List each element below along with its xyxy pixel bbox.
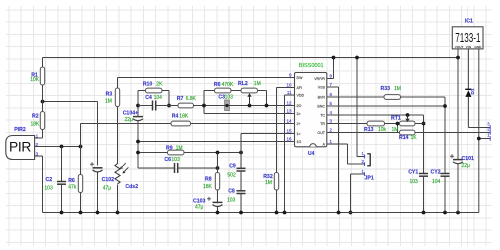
wire pin11 vertical to ground	[285, 95, 295, 213]
svg-text:12: 12	[286, 101, 292, 106]
svg-text:6.8K: 6.8K	[186, 96, 197, 102]
svg-text:JP1: JP1	[365, 176, 374, 182]
svg-text:C101: C101	[462, 156, 475, 162]
svg-text:470K: 470K	[222, 82, 234, 88]
svg-text:2>: 2>	[297, 112, 301, 116]
node R1-R2 junction	[41, 100, 45, 104]
capacitor C6	[164, 157, 180, 173]
svg-text:18K: 18K	[31, 121, 41, 127]
capacitor C4	[145, 95, 162, 111]
node gnd-C2	[60, 211, 64, 215]
resistor R3 1M	[105, 88, 120, 107]
wire pin9 row	[118, 77, 295, 79]
resistor R33 1M	[381, 86, 401, 99]
wire pin14 row	[81, 123, 295, 125]
resistor R32 1M	[263, 173, 278, 191]
svg-text:R7: R7	[177, 96, 184, 102]
svg-text:14: 14	[286, 119, 292, 124]
svg-text:1M: 1M	[105, 99, 112, 105]
resistor R1	[30, 67, 45, 85]
svg-text:7133-1: 7133-1	[455, 31, 480, 45]
svg-text:1K: 1K	[411, 135, 418, 141]
svg-text:2O: 2O	[297, 104, 302, 108]
svg-text:103: 103	[44, 186, 53, 192]
node R13-RT1	[396, 122, 400, 126]
svg-text:11: 11	[287, 90, 292, 95]
potentiometer RL2 1M	[238, 81, 261, 105]
node gnd-R32	[275, 211, 279, 215]
svg-text:RT1: RT1	[391, 115, 401, 121]
svg-text:TC: TC	[320, 114, 325, 118]
svg-text:RL2: RL2	[238, 81, 248, 87]
capacitor C2	[44, 177, 66, 192]
node gnd-R6	[79, 211, 83, 215]
wire pin15 row	[241, 133, 295, 135]
wire C2 vertical	[61, 147, 63, 213]
svg-text:VRF/R: VRF/R	[314, 77, 325, 81]
connector JP1	[361, 169, 373, 182]
node gnd-C102	[96, 211, 100, 215]
capacitor CY2 104	[431, 169, 450, 185]
svg-text:PIR: PIR	[9, 139, 31, 154]
node gnd-Cds2	[116, 211, 120, 215]
svg-text:Cds2: Cds2	[125, 184, 138, 190]
wire VCC top bus	[43, 57, 459, 59]
svg-text:15: 15	[286, 129, 292, 134]
capacitor C103 electrolytic	[193, 197, 223, 211]
svg-text:IC1: IC1	[465, 19, 473, 25]
svg-text:R10: R10	[143, 81, 153, 87]
node pin5-CY2	[443, 104, 447, 108]
node C6-R8	[216, 166, 220, 170]
wire IC1 GND vertical	[478, 49, 480, 213]
wire pin7 to ground	[327, 87, 339, 213]
svg-text:AFI: AFI	[297, 86, 303, 90]
svg-text:1>: 1>	[297, 132, 301, 136]
resistor R10 2K	[143, 81, 163, 93]
svg-text:2K: 2K	[156, 81, 163, 87]
resistor R2	[31, 112, 45, 130]
wire pin3 R13 row	[327, 123, 424, 125]
svg-text:103: 103	[227, 198, 236, 204]
node net12-C3	[225, 104, 229, 108]
node net12-C104	[136, 104, 140, 108]
wire R9 row	[138, 152, 241, 154]
svg-text:C4: C4	[145, 95, 152, 101]
svg-text:103: 103	[171, 157, 180, 163]
wire pin10 row	[277, 87, 295, 89]
wire GND stub	[479, 138, 490, 140]
op-amp U4 BISS0001	[286, 63, 332, 157]
node net12-R6h	[202, 104, 206, 108]
wire PIR pin2 row	[35, 146, 81, 148]
svg-text:CY2: CY2	[431, 169, 441, 175]
node GND-stub	[477, 137, 481, 141]
node JP1-ground	[349, 211, 353, 215]
svg-text:C2: C2	[46, 177, 53, 183]
node gnd-pin7	[337, 211, 341, 215]
resistor R6 47k	[68, 175, 83, 193]
svg-text:PIR2: PIR2	[14, 127, 26, 133]
svg-text:R2: R2	[32, 114, 39, 120]
node C104line-pin16	[136, 140, 140, 144]
svg-text:47μ: 47μ	[103, 186, 112, 192]
resistor R14 1K	[399, 130, 417, 141]
svg-text:10: 10	[286, 83, 292, 88]
wire pin1 to header pin2	[327, 144, 365, 164]
wire R33 corner to CY2	[444, 97, 446, 213]
wire R14 left jog	[397, 124, 399, 133]
node gnd-C103	[216, 211, 220, 215]
wire pin5 row	[327, 105, 445, 107]
wire R10 right leg	[168, 91, 170, 106]
svg-text:VIN: VIN	[466, 45, 471, 49]
resistor R7 6.8K	[177, 96, 197, 108]
svg-text:104: 104	[154, 95, 163, 101]
capacitor CY1 103	[408, 169, 428, 185]
svg-text:VSS: VSS	[318, 86, 326, 90]
svg-text:TR: TR	[320, 122, 325, 126]
wire R3-Cds2 vertical	[117, 78, 119, 213]
node bus-VOUT	[456, 56, 460, 60]
svg-text:R14: R14	[399, 135, 409, 141]
wire net12 row	[138, 105, 295, 107]
svg-text:103: 103	[225, 94, 234, 100]
svg-text:10k: 10k	[378, 127, 387, 133]
photoresistor Cds2	[115, 163, 138, 190]
wire pin6 R33 row	[327, 96, 445, 98]
header JP 2pin bracket	[361, 151, 370, 166]
svg-text:103: 103	[410, 179, 419, 185]
wire pin8 to bus	[327, 58, 334, 79]
wire R10 row	[138, 90, 169, 92]
capacitor C3	[218, 94, 233, 110]
svg-text:OUT: OUT	[317, 131, 325, 135]
wire PIR pin3 to ground	[35, 156, 43, 213]
svg-text:2+: 2+	[297, 122, 301, 126]
wire RL2 right leg	[266, 91, 268, 106]
resistor R13 10k	[364, 121, 387, 133]
resistor R4 18K	[171, 114, 191, 126]
svg-text:VDD: VDD	[297, 94, 305, 98]
regulator IC1 7133-1	[452, 19, 483, 50]
wire C102 gap	[97, 172, 99, 213]
svg-text:16: 16	[286, 137, 292, 142]
svg-text:CY1: CY1	[408, 169, 418, 175]
svg-text:C9: C9	[229, 164, 236, 170]
wire ground bus	[43, 212, 479, 214]
node R9-left	[136, 151, 140, 155]
svg-text:1M: 1M	[254, 81, 261, 87]
svg-text:R4: R4	[172, 114, 179, 120]
node net12-RL2r	[265, 104, 269, 108]
node PIR2-C2	[60, 145, 64, 149]
wire RT1 right to CY1	[423, 115, 425, 213]
node gnd-pin11	[283, 211, 287, 215]
diode D1	[465, 88, 476, 97]
wire PIR pin1 to R2	[35, 130, 43, 139]
node R9-R8	[216, 151, 220, 155]
wire pin4 row	[327, 114, 424, 116]
PIR sensor PIR2	[6, 127, 39, 160]
capacitor C8 103	[227, 189, 246, 204]
wire C6 row	[138, 167, 218, 169]
node gnd-C101	[456, 211, 460, 215]
svg-text:1M: 1M	[265, 180, 272, 186]
svg-text:C6: C6	[164, 157, 171, 163]
wire IC1 VOUT C101 vertical	[457, 49, 459, 213]
svg-text:47μ: 47μ	[195, 205, 204, 211]
node net12-R10	[167, 104, 171, 108]
capacitor C9 502	[227, 164, 245, 179]
node bus-pin8	[332, 56, 336, 60]
node gnd-C8	[239, 211, 243, 215]
svg-text:U4: U4	[308, 151, 315, 157]
wire pin16 row	[138, 141, 295, 143]
node bus-jp	[355, 56, 359, 60]
node pin4-wiper	[406, 113, 410, 117]
svg-text:18K: 18K	[203, 184, 213, 190]
trimmer RT1	[391, 115, 415, 133]
svg-text:GND: GND	[474, 45, 482, 49]
svg-text:C102: C102	[102, 177, 115, 183]
node R9-C9line	[239, 151, 243, 155]
svg-text:R3: R3	[106, 92, 113, 98]
capacitor C101 electrolytic	[450, 154, 474, 169]
node net12-wiper	[248, 104, 252, 108]
wire pin13 row	[204, 113, 295, 115]
svg-text:10K: 10K	[30, 77, 40, 83]
svg-text:R9: R9	[166, 146, 173, 152]
wire C9-C8 vertical pin15	[240, 134, 242, 213]
wire R1-R2 junction to C102	[43, 102, 98, 213]
wire R6 vertical	[80, 124, 82, 213]
svg-text:502: 502	[227, 172, 236, 178]
capacitor C104 electrolytic	[123, 111, 143, 123]
wire R6h left leg	[203, 91, 205, 114]
capacitor C102 electrolytic	[90, 162, 114, 191]
wire C104-R9 vertical	[137, 91, 139, 169]
svg-text:D1: D1	[470, 88, 476, 94]
wire R8 vertical	[217, 153, 219, 213]
svg-text:BISS0001: BISS0001	[299, 63, 324, 69]
wire R2 top to R1 bottom	[42, 85, 44, 112]
wire R6h-RL2 row	[204, 90, 267, 92]
wire IC1 VIN D1 vertical	[468, 49, 490, 128]
svg-text:R6: R6	[214, 82, 221, 88]
connector output 3pin	[487, 121, 490, 140]
node gnd-CY2	[443, 211, 447, 215]
wire bus to header pin1	[357, 58, 365, 157]
svg-text:1O: 1O	[297, 140, 302, 144]
wire R32 pin10 vertical	[276, 88, 278, 213]
resistor R8 18K	[203, 173, 220, 191]
svg-text:1M: 1M	[176, 146, 183, 152]
svg-text:R33: R33	[381, 86, 391, 92]
svg-text:R6: R6	[68, 178, 75, 184]
resistor R6 470K horizontal	[214, 82, 234, 93]
wire pin2 OUT row	[327, 132, 490, 134]
svg-text:47k: 47k	[68, 185, 77, 191]
svg-text:22μ: 22μ	[125, 117, 134, 123]
node PIR2-R6	[79, 145, 83, 149]
wire R1 top to bus	[42, 58, 44, 68]
svg-text:C8: C8	[228, 189, 235, 195]
node gnd-CY1	[422, 211, 426, 215]
svg-text:VOUT: VOUT	[455, 45, 464, 49]
svg-text:1M: 1M	[392, 127, 399, 133]
resistor R9 1M	[166, 146, 184, 155]
svg-text:C104+: C104+	[123, 111, 138, 117]
wire JP1 stub	[351, 174, 365, 213]
svg-text:18K: 18K	[179, 114, 189, 120]
node RT1-right	[422, 122, 426, 126]
svg-text:BVR: BVR	[318, 96, 326, 100]
svg-text:DW: DW	[297, 76, 304, 80]
svg-text:104: 104	[432, 179, 441, 185]
svg-text:R8: R8	[205, 176, 212, 182]
svg-text:13: 13	[286, 109, 292, 114]
svg-text:R13: R13	[364, 127, 374, 133]
svg-text:1M: 1M	[394, 86, 401, 92]
svg-text:BNC: BNC	[317, 105, 325, 109]
svg-text:22μ: 22μ	[462, 163, 471, 169]
